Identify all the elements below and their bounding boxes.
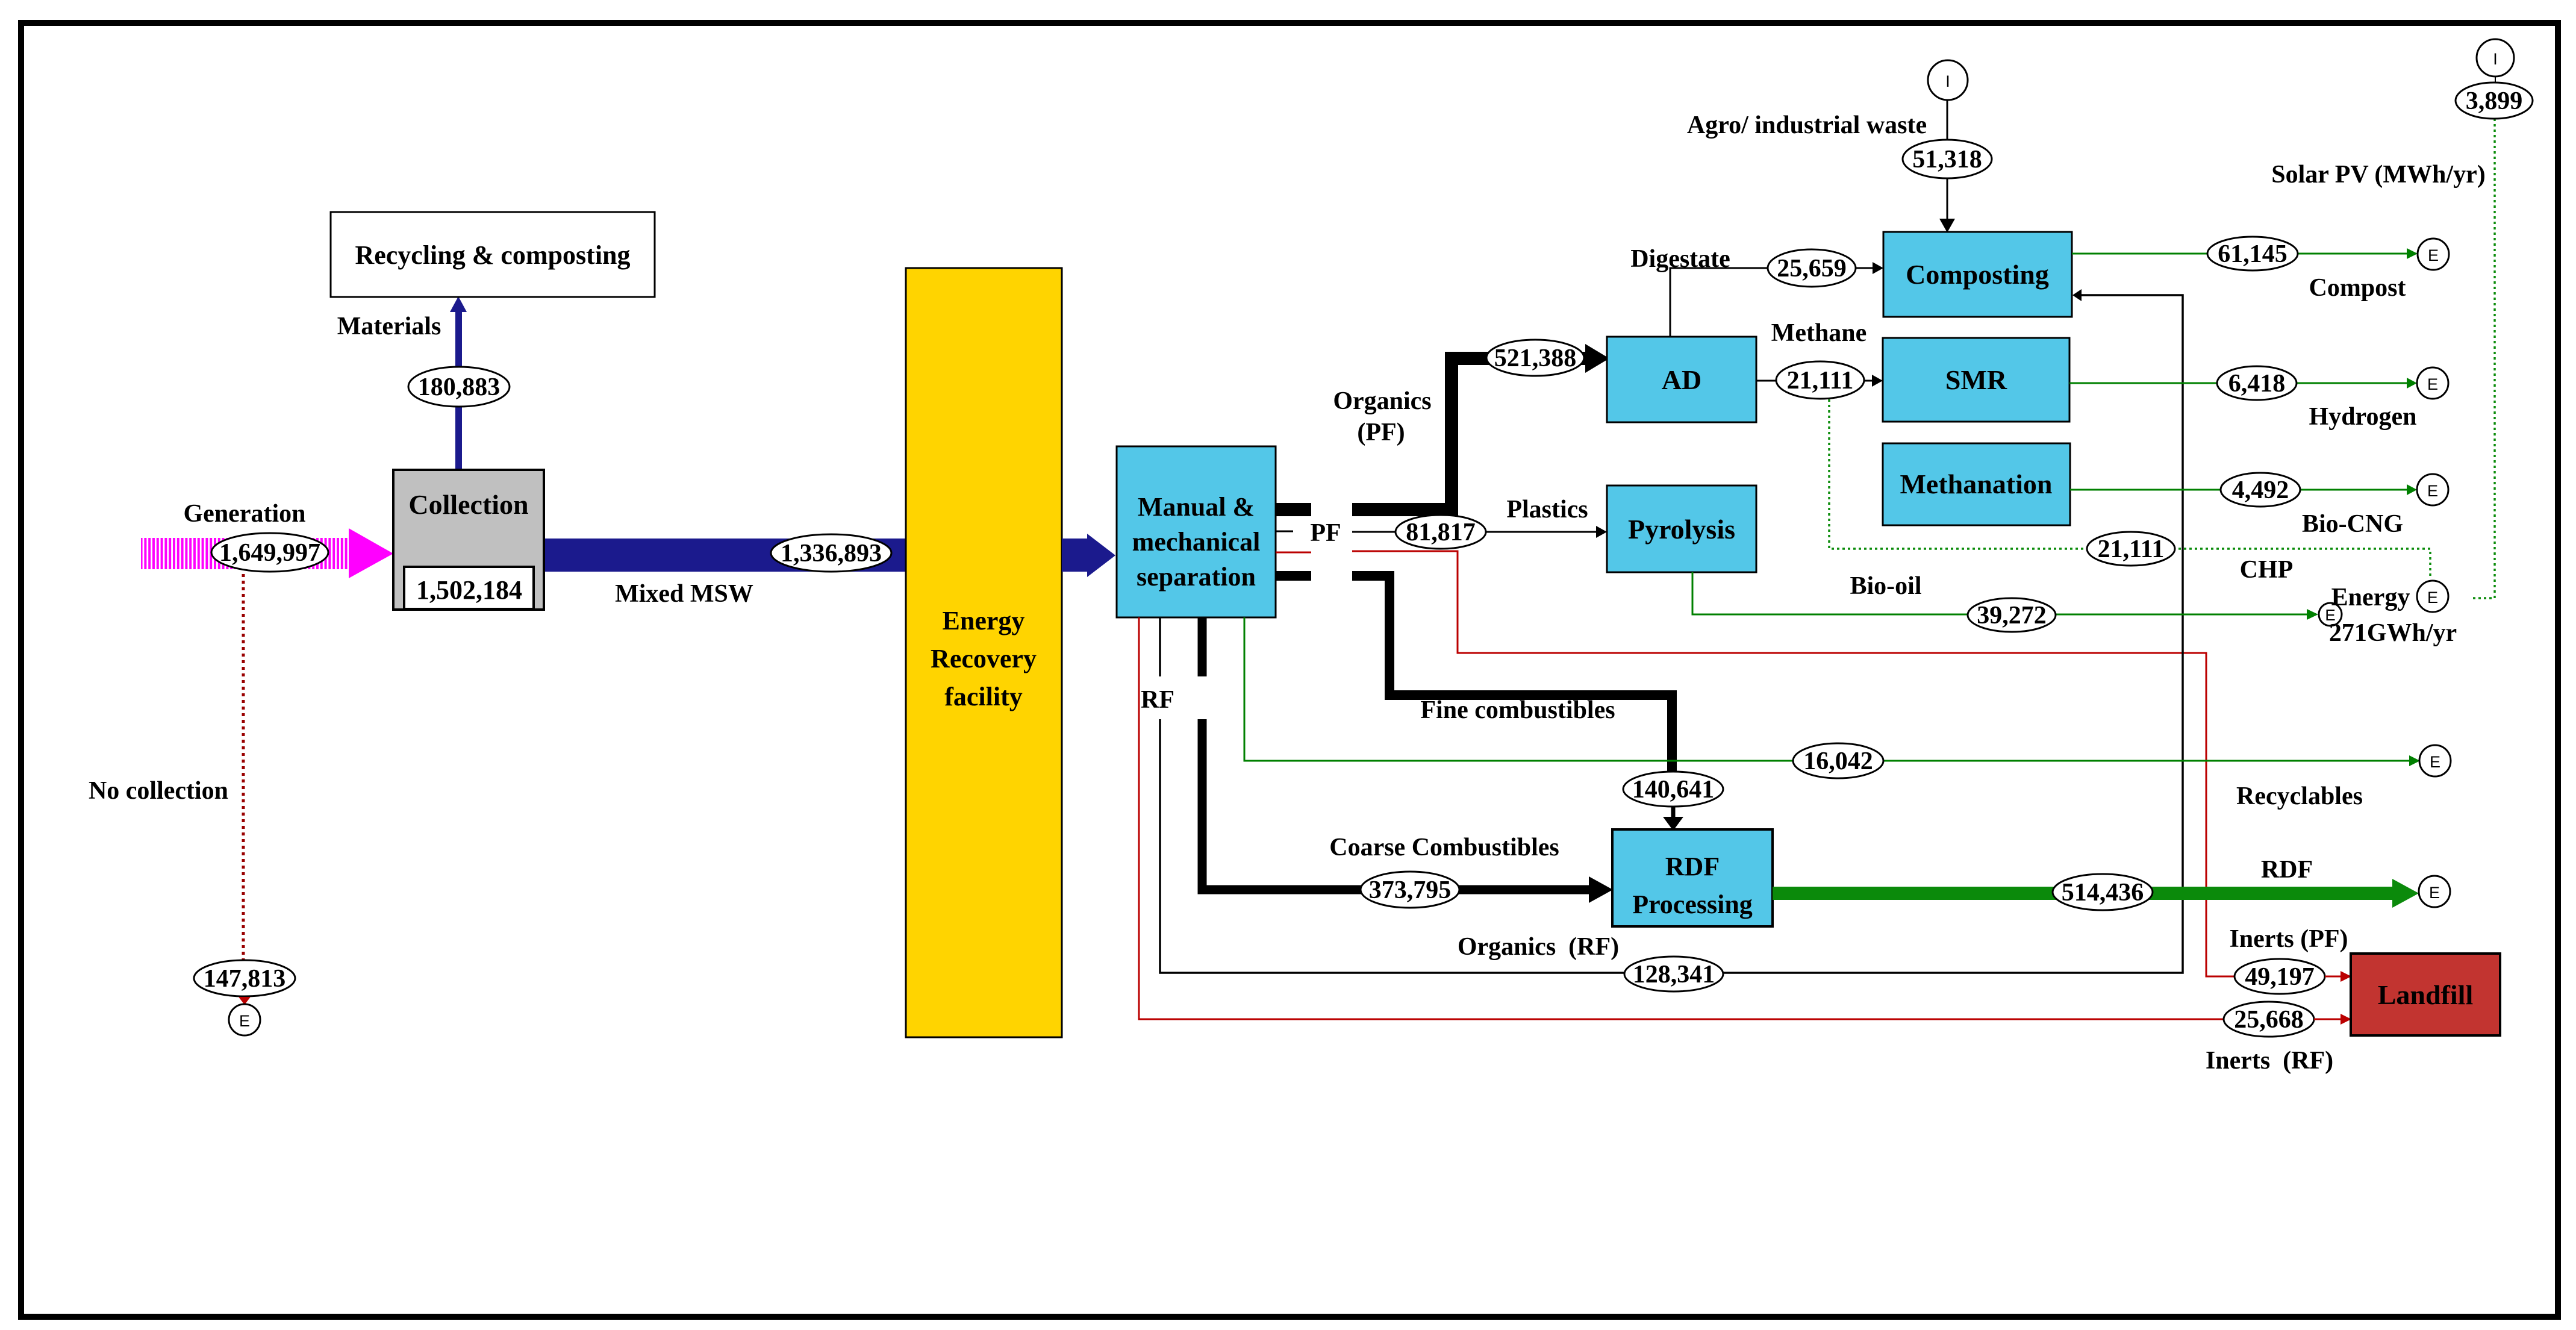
- wire solar dotted: [2472, 76, 2495, 598]
- svg-text:Mixed MSW: Mixed MSW: [615, 580, 753, 608]
- svg-text:6,418: 6,418: [2228, 370, 2286, 398]
- svg-text:Inerts (RF): Inerts (RF): [2206, 1047, 2333, 1075]
- ellipse 16,042: [1793, 743, 1883, 778]
- svg-text:180,883: 180,883: [418, 373, 501, 401]
- arrow 25,668 to landfill: [2314, 1014, 2351, 1025]
- ellipse 25,668: [2224, 1002, 2314, 1037]
- svg-text:Recovery: Recovery: [931, 644, 1037, 673]
- E circle bio-cng: [2417, 474, 2448, 505]
- svg-text:514,436: 514,436: [2062, 879, 2144, 907]
- box Pyrolysis: [1607, 485, 1756, 572]
- ellipse 3,899: [2456, 83, 2533, 119]
- ellipse 1,649,997: [211, 533, 328, 572]
- svg-text:Hydrogen: Hydrogen: [2309, 403, 2417, 431]
- svg-text:E: E: [2429, 884, 2440, 902]
- box Energy Recovery facility: [906, 268, 1062, 1037]
- svg-text:1,502,184: 1,502,184: [416, 575, 522, 605]
- wire organics PF thick: [1276, 344, 1609, 510]
- box Landfill: [2351, 954, 2500, 1035]
- svg-text:3,899: 3,899: [2466, 87, 2523, 115]
- E circle hydrogen: [2417, 367, 2448, 399]
- wire PF thin: [1276, 526, 1607, 538]
- svg-text:AD: AD: [1662, 364, 1701, 395]
- box Collection: [393, 470, 544, 610]
- blue arrow collection to recycling: [450, 296, 467, 470]
- svg-text:(PF): (PF): [1357, 419, 1405, 446]
- box Composting: [1883, 232, 2072, 317]
- E circle compost: [2418, 239, 2449, 270]
- wire methane: [1756, 375, 1883, 387]
- svg-text:Compost: Compost: [2309, 274, 2406, 302]
- svg-text:49,197: 49,197: [2245, 963, 2315, 991]
- ellipse 180,883: [408, 367, 510, 407]
- svg-text:147,813: 147,813: [204, 965, 286, 993]
- box AD: [1607, 337, 1756, 422]
- box RDF Processing: [1612, 829, 1773, 926]
- wire organics RF black: [1160, 289, 2183, 973]
- ellipse 81,817: [1396, 515, 1486, 549]
- svg-text:1,649,997: 1,649,997: [219, 539, 320, 567]
- arrow into E no-collection: [239, 997, 251, 1005]
- svg-text:separation: separation: [1137, 562, 1256, 592]
- svg-text:Methane: Methane: [1771, 319, 1867, 347]
- svg-text:Recycling & composting: Recycling & composting: [355, 240, 630, 270]
- wire bio-cng green: [2070, 484, 2417, 495]
- svg-text:E: E: [2428, 246, 2439, 264]
- svg-text:E: E: [2427, 589, 2438, 607]
- box Methanation: [1883, 443, 2070, 525]
- blue band mixed MSW: [544, 539, 906, 572]
- svg-text:Bio-CNG: Bio-CNG: [2302, 510, 2403, 538]
- wire coarse combustibles thick: [1202, 617, 1613, 903]
- svg-text:facility: facility: [944, 682, 1023, 711]
- blue arrow into separation: [1062, 534, 1115, 577]
- svg-text:Energy: Energy: [2331, 584, 2410, 611]
- svg-text:SMR: SMR: [1945, 364, 2007, 395]
- svg-text:Generation: Generation: [184, 500, 306, 528]
- svg-text:21,111: 21,111: [2098, 535, 2165, 563]
- E circle energy: [2417, 581, 2448, 612]
- E circle no-collection: [229, 1004, 260, 1035]
- svg-text:Composting: Composting: [1906, 259, 2049, 290]
- arrow 49,197 to landfill: [2325, 971, 2351, 982]
- ellipse 147,813: [194, 960, 295, 996]
- wire RF red vertical to landfill: [1139, 617, 2224, 1019]
- I circle solar: [2477, 39, 2514, 76]
- svg-text:Inerts (PF): Inerts (PF): [2229, 925, 2348, 953]
- wire CHP dotted green: [1829, 399, 2430, 576]
- svg-text:CHP: CHP: [2240, 556, 2294, 584]
- svg-text:RDF: RDF: [2261, 856, 2313, 884]
- E circle RDF: [2419, 876, 2450, 907]
- svg-text:39,272: 39,272: [1977, 602, 2047, 629]
- svg-text:mechanical: mechanical: [1132, 527, 1261, 557]
- E circle bio-oil small: [2319, 603, 2342, 626]
- svg-text:128,341: 128,341: [1633, 961, 1715, 988]
- svg-text:Collection: Collection: [408, 489, 528, 520]
- svg-text:RF: RF: [1141, 686, 1174, 714]
- svg-text:Manual &: Manual &: [1138, 492, 1255, 522]
- svg-text:16,042: 16,042: [1803, 748, 1873, 775]
- ellipse 21,111 methane: [1776, 361, 1864, 399]
- svg-text:Agro/ industrial waste: Agro/ industrial waste: [1687, 111, 1927, 139]
- svg-text:1,336,893: 1,336,893: [781, 540, 882, 567]
- svg-text:No collection: No collection: [89, 777, 228, 805]
- wire fine combustibles thick: [1276, 576, 1672, 774]
- svg-text:Recyclables: Recyclables: [2236, 782, 2363, 810]
- wire bio-oil green: [1692, 572, 2318, 620]
- svg-text:Coarse Combustibles: Coarse Combustibles: [1329, 834, 1559, 861]
- box Manual & mechanical separation: [1117, 446, 1276, 617]
- svg-text:Plastics: Plastics: [1506, 496, 1588, 523]
- svg-text:51,318: 51,318: [1912, 146, 1982, 173]
- svg-text:RDF: RDF: [1665, 852, 1720, 881]
- ellipse 49,197: [2235, 959, 2325, 994]
- svg-text:Pyrolysis: Pyrolysis: [1628, 514, 1735, 545]
- ellipse 1,336,893: [771, 534, 891, 572]
- wire agro into composting: [1939, 100, 1955, 233]
- svg-text:271GWh/yr: 271GWh/yr: [2329, 619, 2457, 647]
- svg-text:Bio-oil: Bio-oil: [1850, 572, 1921, 600]
- svg-text:Fine combustibles: Fine combustibles: [1420, 696, 1615, 724]
- wire inerts PF red: [1276, 551, 2236, 976]
- svg-text:E: E: [239, 1012, 250, 1030]
- svg-text:61,145: 61,145: [2218, 240, 2288, 268]
- svg-text:140,641: 140,641: [1632, 776, 1715, 804]
- I circle agro: [1928, 60, 1968, 100]
- svg-text:Methanation: Methanation: [1900, 469, 2053, 499]
- svg-text:I: I: [1945, 72, 1950, 90]
- ellipse 61,145: [2207, 237, 2298, 270]
- ellipse 373,795: [1361, 872, 1459, 908]
- svg-text:E: E: [2427, 375, 2438, 393]
- ellipse 128,341: [1624, 957, 1723, 991]
- ellipse 39,272: [1968, 598, 2056, 632]
- E circle recyclables: [2419, 745, 2451, 776]
- svg-text:PF: PF: [1310, 519, 1341, 547]
- svg-text:21,111: 21,111: [1787, 367, 1854, 395]
- ellipse 51,318: [1903, 140, 1992, 178]
- ellipse 25,659: [1768, 249, 1856, 287]
- ellipse 514,436: [2053, 874, 2153, 910]
- svg-text:373,795: 373,795: [1369, 876, 1452, 904]
- wire recyclables green: [1244, 617, 2420, 766]
- ellipse 4,492: [2221, 473, 2300, 507]
- no collection dotted line: [242, 554, 245, 960]
- generation striped arrow: [141, 528, 393, 578]
- svg-text:Landfill: Landfill: [2378, 979, 2474, 1010]
- wire hydrogen green: [2069, 378, 2417, 389]
- svg-text:Solar PV (MWh/yr): Solar PV (MWh/yr): [2271, 161, 2485, 189]
- svg-text:E: E: [2427, 482, 2438, 500]
- svg-text:E: E: [2430, 753, 2440, 771]
- svg-text:Organics (RF): Organics (RF): [1458, 933, 1619, 961]
- svg-text:25,659: 25,659: [1777, 255, 1847, 283]
- wire digestate: [1670, 262, 1883, 337]
- wire compost green: [2072, 248, 2418, 259]
- ellipse 21,111 CHP: [2087, 532, 2175, 566]
- ellipse 521,388: [1486, 340, 1584, 376]
- svg-text:Energy: Energy: [943, 606, 1025, 635]
- svg-text:Materials: Materials: [337, 313, 441, 340]
- svg-text:Digestate: Digestate: [1630, 245, 1730, 273]
- arrow into RDF top: [1663, 807, 1683, 831]
- box SMR: [1883, 338, 2069, 422]
- ellipse 6,418: [2217, 366, 2297, 400]
- svg-text:81,817: 81,817: [1406, 519, 1476, 546]
- svg-text:4,492: 4,492: [2232, 476, 2289, 504]
- svg-text:I: I: [2493, 50, 2498, 68]
- svg-text:521,388: 521,388: [1494, 345, 1577, 372]
- svg-text:25,668: 25,668: [2234, 1006, 2304, 1034]
- svg-text:Processing: Processing: [1632, 890, 1753, 919]
- ellipse 140,641: [1623, 772, 1723, 807]
- box Recycling & composting: [331, 212, 655, 297]
- wire RDF green band: [1773, 879, 2419, 908]
- svg-text:Organics: Organics: [1333, 387, 1431, 415]
